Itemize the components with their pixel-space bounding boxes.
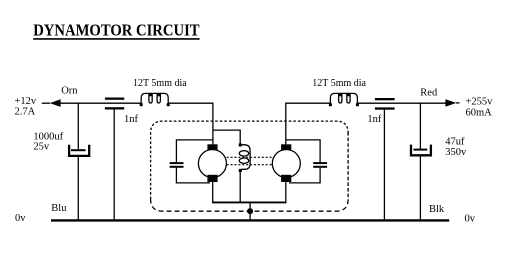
brush left top xyxy=(207,144,217,150)
inductor L2 left post xyxy=(329,103,332,106)
capacitor across right field (top plate) xyxy=(313,162,327,164)
wire: 0v bottom rail (thick) xyxy=(51,219,449,221)
svg-text:25v: 25v xyxy=(33,141,50,152)
brush left bottom xyxy=(207,175,217,182)
capacitor 1000uf electrolytic (inner plate) xyxy=(71,149,86,151)
wire: center tap to 0v rail xyxy=(249,202,251,220)
wire: right motor bottom lead xyxy=(285,182,287,202)
motor armature right (circle) xyxy=(272,150,300,178)
interpole coil top post xyxy=(239,143,242,146)
wire: 1000uf branch bottom lead xyxy=(77,157,79,220)
capacitor across left field (bottom plate) xyxy=(170,166,184,168)
wire: right field branch (top + right + bottom) xyxy=(286,140,320,183)
svg-text:Orn: Orn xyxy=(61,85,78,96)
wire: common bottom bus (thick) xyxy=(212,201,287,203)
wire: 47uf branch top lead xyxy=(419,103,421,149)
capacitor 1nf right (bottom plate) xyxy=(375,107,395,109)
inductor L2 loop 1 xyxy=(339,94,342,103)
wire: top rail right motor to L2 xyxy=(286,102,330,104)
shaft dotted line upper xyxy=(227,156,273,158)
svg-text:DYNAMOTOR CIRCUIT: DYNAMOTOR CIRCUIT xyxy=(33,21,200,40)
wire: 1000uf branch top lead xyxy=(77,103,79,149)
svg-text:47uf: 47uf xyxy=(445,136,465,147)
brush right bottom xyxy=(281,175,291,182)
svg-text:1nf: 1nf xyxy=(367,114,382,125)
capacitor 47uf electrolytic (inner plate) xyxy=(414,149,428,151)
wire: left field branch (top + left + bottom) xyxy=(176,140,213,183)
wire: top rail between L1 and left motor xyxy=(168,102,213,104)
wire: 47uf branch bottom lead xyxy=(419,156,421,220)
capacitor 47uf electrolytic (outer curved plate) xyxy=(411,145,431,156)
wire: output arrow tip lead xyxy=(456,102,460,104)
wire: interpole coil bottom lead xyxy=(239,172,241,202)
wire: left motor top lead (rail corner down) xyxy=(212,103,215,144)
interpole coil bottom post xyxy=(239,169,242,172)
inductor L2 loop top junctions xyxy=(338,94,342,96)
brush right top xyxy=(281,144,291,150)
wire: branch to interpole coil top xyxy=(213,130,240,144)
svg-text:12T 5mm dia: 12T 5mm dia xyxy=(133,78,187,89)
wire: right motor top lead (corner from right rail) xyxy=(285,103,288,144)
capacitor 1nf left (bottom plate) xyxy=(105,107,124,109)
svg-text:2.7A: 2.7A xyxy=(15,106,36,117)
dashed dynamotor enclosure xyxy=(151,121,349,211)
interpole coil loop 2 xyxy=(239,158,248,163)
junction dot on enclosure xyxy=(247,208,253,214)
svg-text:+12v: +12v xyxy=(15,96,37,107)
inductor L1 loop 2 xyxy=(157,94,160,103)
capacitor across right field (bottom plate) xyxy=(313,166,327,168)
inductor L1 loop top junctions xyxy=(149,94,153,96)
svg-text:350v: 350v xyxy=(445,147,467,158)
wire: +12v input lead xyxy=(42,102,50,104)
capacitor 1nf right (top plate) xyxy=(375,98,395,100)
svg-text:0v: 0v xyxy=(15,213,26,224)
wire: left motor bottom lead xyxy=(212,182,214,202)
capacitor 1000uf electrolytic (outer curved plate) xyxy=(69,145,89,156)
wire: 1nf left ground lead xyxy=(113,109,115,220)
wire: top rail left (arrow to L1) xyxy=(60,102,141,104)
svg-text:+255v: +255v xyxy=(466,96,494,107)
inductor L2 12T (body) xyxy=(330,93,357,104)
svg-text:Red: Red xyxy=(420,88,438,99)
svg-text:1nf: 1nf xyxy=(124,114,139,125)
svg-text:Blk: Blk xyxy=(429,204,445,215)
title DYNAMOTOR CIRCUIT xyxy=(33,21,200,40)
svg-text:12T 5mm dia: 12T 5mm dia xyxy=(312,78,366,89)
motor armature left (circle) xyxy=(198,150,226,178)
wire: top rail L2 to output arrow xyxy=(358,102,446,104)
arrow: +12v input (points left) xyxy=(50,99,61,107)
svg-text:0v: 0v xyxy=(465,214,476,225)
inductor L2 right post xyxy=(356,103,359,106)
inductor L1 loop 1 xyxy=(149,94,152,103)
capacitor across left field (top plate) xyxy=(170,162,184,164)
interpole coil body (vertical) xyxy=(241,145,250,170)
inductor L2 loop 2 xyxy=(347,94,350,103)
arrow: +255v output (points right) xyxy=(445,99,456,107)
svg-text:Blu: Blu xyxy=(51,203,67,214)
svg-text:60mA: 60mA xyxy=(466,107,493,118)
shaft dotted line lower xyxy=(227,164,273,166)
wire: 1nf right ground lead xyxy=(383,110,385,221)
inductor L1 right post xyxy=(167,103,170,106)
interpole coil loop 1 xyxy=(239,151,248,156)
capacitor 1nf left (top plate) xyxy=(105,98,124,100)
inductor L1 12T (body) xyxy=(141,93,168,104)
inductor L1 left post xyxy=(140,103,143,106)
